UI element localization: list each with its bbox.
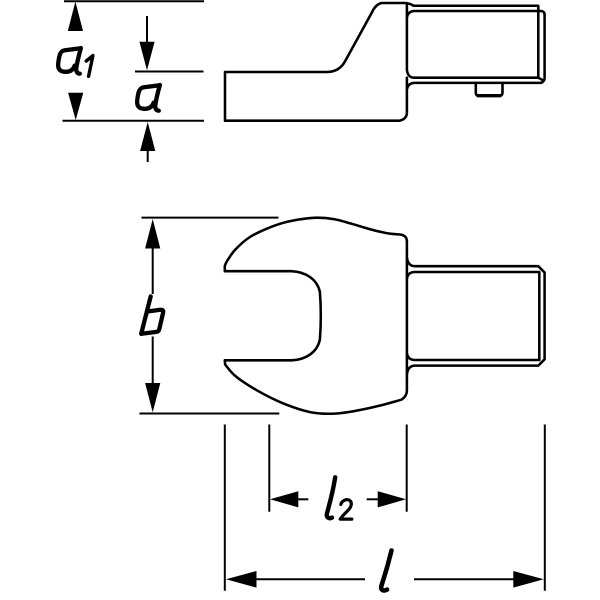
arrow a down (to y=72 line) xyxy=(139,42,154,71)
side view chamfer bottom right xyxy=(538,78,543,81)
arrow l left xyxy=(226,571,257,588)
label l : glyph l xyxy=(381,551,391,591)
l2 left extension xyxy=(268,425,270,512)
label a (dimension a letter) xyxy=(137,85,160,111)
l right tail xyxy=(414,578,516,580)
dim a upper arrow tail xyxy=(146,16,148,45)
arrow a1 up xyxy=(68,2,83,32)
label l2 : glyph l xyxy=(327,477,335,518)
dim a1 top line xyxy=(64,0,204,2)
side view drive square inner xyxy=(407,11,545,89)
arrow a up (to y=120.8 line) xyxy=(140,122,155,151)
arrow b down xyxy=(145,383,160,412)
l2 right extension xyxy=(406,425,408,512)
label l2 : glyph 2 xyxy=(340,500,352,519)
label a1 : subscript 1 xyxy=(86,56,93,77)
dim a lower arrow tail xyxy=(147,150,149,162)
l2 left tail xyxy=(296,498,308,500)
dim a1/a bottom line xyxy=(63,120,205,122)
arrow l2 right xyxy=(378,491,406,507)
dim b upper tail xyxy=(152,246,154,294)
l left extension xyxy=(224,425,226,591)
arrow a1 down xyxy=(68,93,83,120)
plan view shank inner lines xyxy=(407,272,539,360)
side view outer contour xyxy=(225,3,538,121)
plan view shank outer xyxy=(407,258,545,375)
dim a top tick xyxy=(135,71,204,73)
arrow b up xyxy=(145,219,160,249)
plan view outer contour xyxy=(225,218,407,414)
l right extension xyxy=(544,425,546,591)
dim b lower tail xyxy=(152,337,154,386)
label b xyxy=(141,296,151,333)
arrow l right xyxy=(513,571,544,588)
dim b bottom tick xyxy=(140,413,280,415)
dim b top tick xyxy=(142,217,279,219)
l2 right tail xyxy=(367,498,379,500)
label a1 : glyph a xyxy=(58,48,81,74)
l left tail xyxy=(254,578,365,580)
arrow l2 left xyxy=(270,491,298,507)
side view release tab xyxy=(476,83,503,96)
